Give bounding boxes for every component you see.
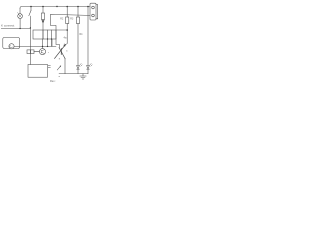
svg-text:c: c [48,52,50,54]
svg-text:R3: R3 [70,19,74,21]
svg-text:K connect: K connect [1,24,15,28]
svg-text:4a: 4a [64,36,67,40]
svg-text:R2: R2 [60,19,64,21]
svg-text:R4: R4 [80,34,84,36]
svg-text:w: w [59,76,61,78]
svg-text:b: b [66,51,68,53]
svg-text:E: E [59,59,61,61]
svg-text:Rev :: Rev : [50,79,56,83]
